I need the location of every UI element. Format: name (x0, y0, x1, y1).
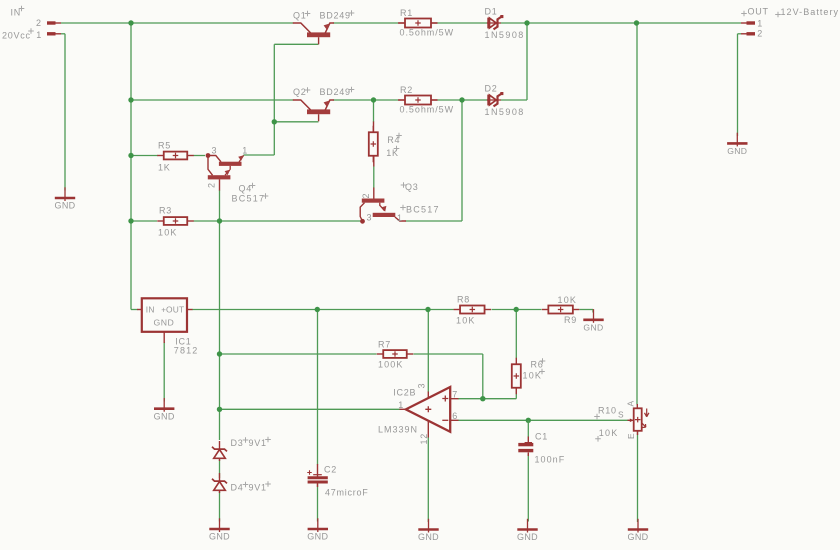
zener diode D3 9V1 (219, 441, 221, 450)
svg-text:R7: R7 (378, 339, 391, 349)
ground under zener chain (219, 518, 221, 532)
wire R4 tap down to R4 (373, 100, 375, 122)
capacitor C2 47microF (317, 464, 319, 477)
svg-text:GND: GND (583, 322, 603, 332)
potentiometer R10 10K body (634, 408, 642, 431)
ground under C1 (527, 519, 529, 533)
wire pin7 line (458, 398, 516, 400)
svg-text:100nF: 100nF (535, 455, 566, 465)
wire R1 to D1 anode (431, 22, 438, 24)
svg-text:1: 1 (398, 400, 404, 410)
svg-text:2: 2 (36, 18, 42, 28)
svg-text:BD249: BD249 (320, 11, 351, 21)
wire R2 to junction D2 anode (431, 99, 438, 101)
wire IN pin1 to corner (56, 33, 62, 35)
svg-text:3: 3 (417, 383, 427, 389)
connector OUT pin 2 stub (747, 32, 756, 35)
wire D2 cathode corner up to junction B (501, 99, 528, 101)
svg-text:S: S (618, 410, 624, 420)
svg-text:GND: GND (154, 411, 175, 421)
ground under C2 (317, 518, 319, 532)
svg-text:OUT: OUT (748, 7, 769, 17)
wire C2 to GND (317, 484, 319, 522)
svg-text:GND: GND (154, 317, 175, 327)
resistor R3 10K (157, 220, 164, 222)
IC2B +/- marks (425, 406, 431, 412)
wire Q4 emitter down rail x=219.5 (219, 190, 221, 440)
wire Q1 emitter to R1 (333, 22, 399, 24)
svg-text:10K: 10K (158, 227, 178, 237)
resistor R4 1K (372, 126, 374, 133)
svg-text:1: 1 (397, 213, 403, 223)
svg-text:Q2: Q2 (293, 87, 307, 97)
svg-text:1: 1 (242, 146, 248, 156)
svg-text:GND: GND (209, 532, 230, 542)
transistor Q3 BC517 (362, 199, 385, 203)
op-amp IC2B LM339N comparator triangle (406, 387, 450, 432)
junction G (516.2,309.5) (514, 307, 519, 312)
wire junction F to R8 (428, 309, 454, 311)
svg-text:GND: GND (54, 201, 75, 211)
svg-text:D1: D1 (485, 6, 498, 16)
ground under R10 (637, 519, 639, 533)
svg-text:7: 7 (452, 389, 458, 399)
svg-text:IN: IN (11, 8, 22, 18)
resistor R2 0.5ohm/5W (399, 99, 406, 101)
wire R9 to GND corner (580, 309, 594, 311)
junction base net (274,122) (272, 119, 277, 124)
svg-text:0.5ohm/5W: 0.5ohm/5W (400, 28, 455, 38)
wire junction R4 tap to R2 (374, 99, 399, 101)
svg-text:BD249: BD249 (320, 87, 351, 97)
resistor R1 0.5ohm/5W (399, 22, 406, 24)
ground under OUT pin2 (736, 133, 738, 147)
svg-text:1N5908: 1N5908 (485, 107, 525, 117)
junction D2 anode (462,100) (459, 97, 464, 102)
junction pin7 (482.8,398.7) (480, 396, 485, 401)
junction (131,100) (128, 97, 133, 102)
diode D1 1N5908 (487, 22, 501, 24)
wire left rail into IC1 IN (131, 309, 138, 311)
svg-text:R10: R10 (598, 405, 617, 415)
junction output line (219.5,409.3) (217, 407, 222, 412)
svg-text:R8: R8 (457, 294, 470, 304)
capacitor C1 100nF (527, 420, 529, 437)
diode D2 1N5908 (487, 99, 501, 101)
wire corner up to D2 junction (461, 100, 463, 221)
wire R5 line from left rail (131, 155, 158, 157)
svg-text:1N5908: 1N5908 (485, 30, 525, 40)
svg-text:9V1: 9V1 (249, 483, 267, 493)
resistor R6 10K (515, 358, 517, 365)
wire Q2 emitter to junction R4 tap (333, 99, 374, 101)
svg-text:LM339N: LM339N (378, 424, 418, 434)
wire pin6 line to C1 junction and R10 wiper (458, 419, 528, 421)
svg-text:GND: GND (307, 532, 328, 542)
wire IC1 GND down (163, 342, 165, 402)
wire R6 bottom to pin7 line (515, 388, 517, 399)
connector OUT pin 1 stub (747, 21, 756, 24)
wire zener chain D3-D4 gaps (219, 460, 221, 479)
svg-text:GND: GND (517, 532, 538, 542)
IC1 7812 voltage regulator box (142, 298, 187, 332)
svg-text:GND: GND (418, 532, 439, 542)
potentiometer R10 adjust arrow (645, 409, 649, 417)
wire left rail x=131 down (130, 23, 132, 310)
svg-text:E: E (626, 433, 636, 439)
svg-text:10K: 10K (599, 428, 619, 438)
svg-text:12: 12 (419, 433, 429, 445)
connector IN pin 1 stub (47, 32, 56, 35)
transistor Q4 emitter lead (219, 179, 221, 190)
svg-text:D4: D4 (231, 483, 244, 493)
svg-text:12V-Battery: 12V-Battery (781, 7, 840, 17)
resistor R9 10K (542, 309, 549, 311)
transistor Q3 name labels (401, 182, 407, 188)
junction A (131,23) (128, 20, 133, 25)
wire base net to Q4 collector (244, 154, 275, 156)
wire junction G down to R6 (515, 310, 517, 359)
svg-text:47microF: 47microF (325, 488, 369, 498)
transistor Q4 BC517 (206, 153, 211, 158)
svg-text:C2: C2 (324, 465, 337, 475)
wire junction G to R9 (516, 309, 541, 311)
svg-text:1: 1 (36, 30, 42, 40)
svg-text:IC2B: IC2B (393, 387, 416, 397)
junction R7 line (219.5,354) (217, 351, 222, 356)
svg-text:1: 1 (757, 19, 763, 29)
wire IN pin1 down to GND (64, 34, 66, 191)
resistor R8 10K (454, 309, 461, 311)
svg-text:10K: 10K (558, 295, 578, 305)
junction Q4 emitter (219.5,221) (217, 218, 222, 223)
resistor R4 lead to Q3 (373, 156, 375, 167)
wire Q3 pin1 to corner (406, 220, 463, 222)
svg-text:0.5ohm/5W: 0.5ohm/5W (400, 105, 455, 115)
svg-text:D3: D3 (231, 438, 244, 448)
wire Q1 base horizontal (274, 43, 318, 45)
wire R3 to Q4 emitter junction and Q3 base (194, 220, 363, 222)
wire junction E down to C2 (317, 310, 319, 465)
svg-text:R9: R9 (564, 315, 577, 325)
wire corner down to pin7 junction (482, 354, 484, 399)
resistor R7 100K (377, 353, 384, 355)
svg-text:IN: IN (146, 304, 155, 314)
junction E (317.3,309.5) (315, 307, 320, 312)
wire OUT pin2 to corner and down to GND (741, 33, 747, 35)
svg-text:D2: D2 (485, 83, 498, 93)
svg-text:GND: GND (627, 532, 648, 542)
transistor Q2 BD249 (293, 100, 311, 110)
svg-text:9V1: 9V1 (249, 438, 267, 448)
junction B (527,23) (524, 20, 529, 25)
ground under IC2B pin12 (428, 519, 430, 533)
wire R3 line from left rail (131, 220, 157, 222)
wire top rail y=23 from IN pin2 to junction A (55, 22, 61, 24)
ground under IN connector (64, 187, 66, 201)
svg-text:1K: 1K (158, 162, 171, 172)
svg-text:6: 6 (452, 411, 458, 421)
wire D1 cathode to junction B (501, 22, 528, 24)
wire Q1 base net vertical x=274 (273, 44, 275, 155)
svg-text:10K: 10K (456, 316, 476, 326)
wire IC2B pin12 down to GND (427, 437, 429, 522)
wire R7 line from x=219.5 rail (220, 353, 377, 355)
svg-text:OUT: OUT (166, 304, 184, 314)
wire junction E to junction F (317, 309, 428, 311)
svg-text:3: 3 (367, 213, 373, 223)
svg-text:2: 2 (361, 193, 371, 199)
IC1 pin leads (137, 309, 142, 311)
zener diode D4 9V1 (219, 473, 221, 482)
svg-text:R2: R2 (400, 85, 413, 95)
svg-text:100K: 100K (378, 360, 403, 370)
svg-text:GND: GND (727, 146, 747, 156)
svg-text:10K: 10K (523, 371, 543, 381)
junction (131,221) (128, 218, 133, 223)
svg-text:A: A (626, 400, 636, 406)
wire Q2 base horizontal (274, 121, 318, 123)
svg-text:R4: R4 (387, 135, 400, 145)
wire mid rail y=100 junction to Q2 collector (131, 99, 294, 101)
connector IN pin 2 stub (47, 21, 56, 24)
wire IC1 OUT to junction E (192, 309, 317, 311)
svg-text:7812: 7812 (174, 345, 199, 355)
wire C1 down to GND (527, 454, 529, 522)
ground after R9 (593, 309, 595, 323)
svg-text:R1: R1 (400, 8, 413, 18)
wire R8 to junction G (492, 309, 517, 311)
junction C (636.5,23) (634, 20, 639, 25)
svg-text:BC517: BC517 (406, 205, 440, 215)
potentiometer R10 wiper (628, 419, 634, 421)
transistor Q1 BD249 (293, 23, 311, 33)
svg-text:C1: C1 (535, 431, 548, 441)
svg-text:R5: R5 (158, 140, 171, 150)
wire junction C to OUT pin1 (637, 22, 742, 24)
wire R10 bottom to GND (637, 431, 639, 522)
connector OUT labels (741, 11, 747, 17)
svg-text:Q1: Q1 (293, 11, 307, 21)
svg-text:2: 2 (757, 29, 763, 39)
svg-text:R3: R3 (159, 206, 172, 216)
junction R4 tap (373.5,100) (371, 97, 376, 102)
potentiometer R10 top lead (636, 404, 638, 408)
svg-text:3: 3 (212, 145, 218, 155)
resistor R5 1K (157, 155, 164, 157)
wire junction to D2 anode (462, 99, 488, 101)
ground under IC1 (163, 398, 165, 412)
junction F (428,309.5) (425, 307, 430, 312)
junction C1 (528.3,420.3) (526, 418, 531, 423)
junction (131,155.5) (128, 153, 133, 158)
wire R7 to corner (414, 353, 483, 355)
svg-text:2: 2 (207, 182, 217, 188)
svg-text:20Vcc: 20Vcc (2, 31, 31, 41)
potentiometer R10 wiper diagonal mark (642, 423, 646, 428)
IC2B pin leads (400, 408, 407, 410)
svg-text:BC517: BC517 (232, 194, 266, 204)
wire top rail junction A to Q1 collector (131, 22, 294, 24)
wire junction C down to R10 top (636, 23, 638, 405)
svg-text:Q3: Q3 (405, 182, 419, 192)
wire R5 to Q4 base dot (194, 155, 206, 157)
wire junction F down to IC2B pin3 (427, 310, 429, 393)
potentiometer R10 bottom lead (637, 431, 639, 435)
wire junction B to junction C (527, 22, 637, 24)
wire comparator output line y=409.3 (220, 408, 401, 410)
